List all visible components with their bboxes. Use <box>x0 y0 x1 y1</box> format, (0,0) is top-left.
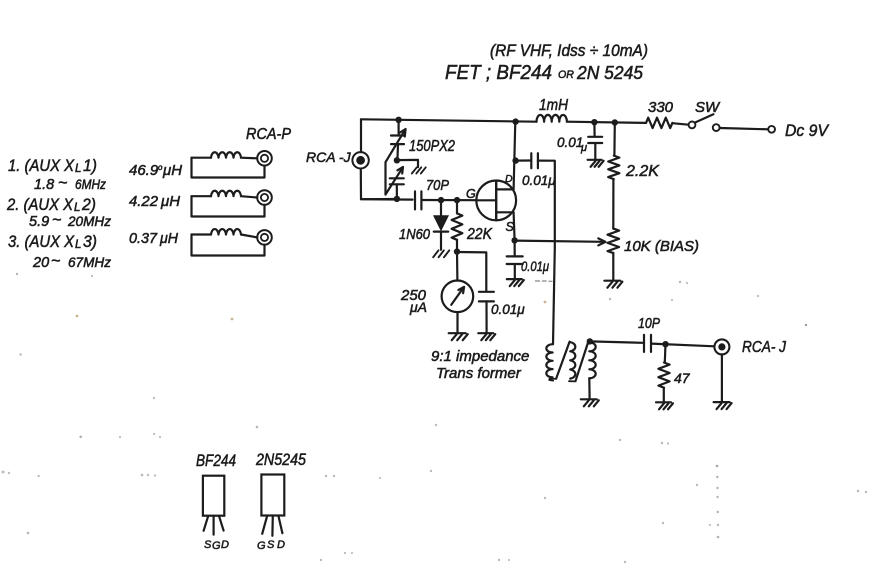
svg-text:S: S <box>506 220 515 234</box>
svg-text:1mH: 1mH <box>539 97 569 114</box>
svg-text:0.01μ: 0.01μ <box>491 302 525 317</box>
svg-text:10P: 10P <box>638 316 660 332</box>
svg-text:G: G <box>257 540 266 552</box>
svg-text:2N 5245: 2N 5245 <box>576 63 644 83</box>
svg-text:22K: 22K <box>466 226 492 243</box>
svg-text:~: ~ <box>52 212 61 229</box>
svg-text:2): 2) <box>81 195 96 214</box>
svg-text:μ: μ <box>580 142 587 154</box>
svg-text:2N5245: 2N5245 <box>255 451 307 469</box>
svg-text:L: L <box>74 202 80 214</box>
svg-text:6MHz: 6MHz <box>75 177 106 192</box>
svg-text:RCA-P: RCA-P <box>246 126 292 143</box>
svg-text:S: S <box>204 539 212 551</box>
svg-text:1): 1) <box>83 156 97 175</box>
svg-text:μH: μH <box>162 162 182 179</box>
svg-text:μA: μA <box>409 299 427 315</box>
svg-text:2.2K: 2.2K <box>625 163 660 180</box>
svg-text:0.01: 0.01 <box>557 135 583 150</box>
svg-text:~: ~ <box>58 175 67 192</box>
svg-text:46.9: 46.9 <box>129 162 159 179</box>
svg-text:9:1 impedance: 9:1 impedance <box>431 348 529 365</box>
svg-text:SW: SW <box>695 99 721 116</box>
svg-text:L: L <box>75 239 81 251</box>
svg-text:G: G <box>212 540 221 552</box>
svg-text:1.8: 1.8 <box>34 177 54 193</box>
svg-text:0.01μ: 0.01μ <box>522 173 556 188</box>
svg-text:1N60: 1N60 <box>399 227 430 243</box>
svg-text:Trans former: Trans former <box>436 365 522 382</box>
svg-text:330: 330 <box>648 99 674 116</box>
svg-text:3): 3) <box>83 232 97 251</box>
svg-text:1. (AUX X: 1. (AUX X <box>8 156 75 175</box>
svg-text:D: D <box>505 173 513 185</box>
svg-text:150PX2: 150PX2 <box>409 138 455 155</box>
svg-text:G: G <box>466 187 476 201</box>
svg-text:0.37: 0.37 <box>129 230 158 247</box>
svg-text:S: S <box>267 539 275 551</box>
svg-text:20MHz: 20MHz <box>67 214 111 229</box>
svg-text:2. (AUX X: 2. (AUX X <box>6 195 73 214</box>
svg-text:L: L <box>75 163 81 175</box>
svg-text:47: 47 <box>674 370 691 386</box>
svg-text:20: 20 <box>32 255 49 271</box>
svg-text:μH: μH <box>159 230 178 247</box>
svg-text:10K (BIAS): 10K (BIAS) <box>624 238 699 255</box>
svg-text:0.01μ: 0.01μ <box>521 259 550 274</box>
svg-text:D: D <box>221 539 229 551</box>
svg-text:RCA- J: RCA- J <box>742 339 786 356</box>
svg-text:4.22: 4.22 <box>129 193 159 210</box>
svg-text:~: ~ <box>51 253 60 270</box>
svg-text:FET ; BF244: FET ; BF244 <box>445 61 552 84</box>
svg-text:BF244: BF244 <box>196 452 236 470</box>
svg-text:RCA -J: RCA -J <box>306 149 352 165</box>
svg-text:μH: μH <box>160 193 180 210</box>
svg-text:Dc 9V: Dc 9V <box>785 121 830 140</box>
svg-text:(RF VHF, Idss ÷ 10mA): (RF VHF, Idss ÷ 10mA) <box>490 41 648 60</box>
svg-text:70P: 70P <box>426 178 449 194</box>
svg-text:OR: OR <box>558 69 574 81</box>
svg-text:5.9: 5.9 <box>29 214 49 230</box>
svg-text:D: D <box>277 539 285 551</box>
svg-text:67MHz: 67MHz <box>68 255 111 270</box>
svg-text:3. (AUX X: 3. (AUX X <box>8 232 75 251</box>
